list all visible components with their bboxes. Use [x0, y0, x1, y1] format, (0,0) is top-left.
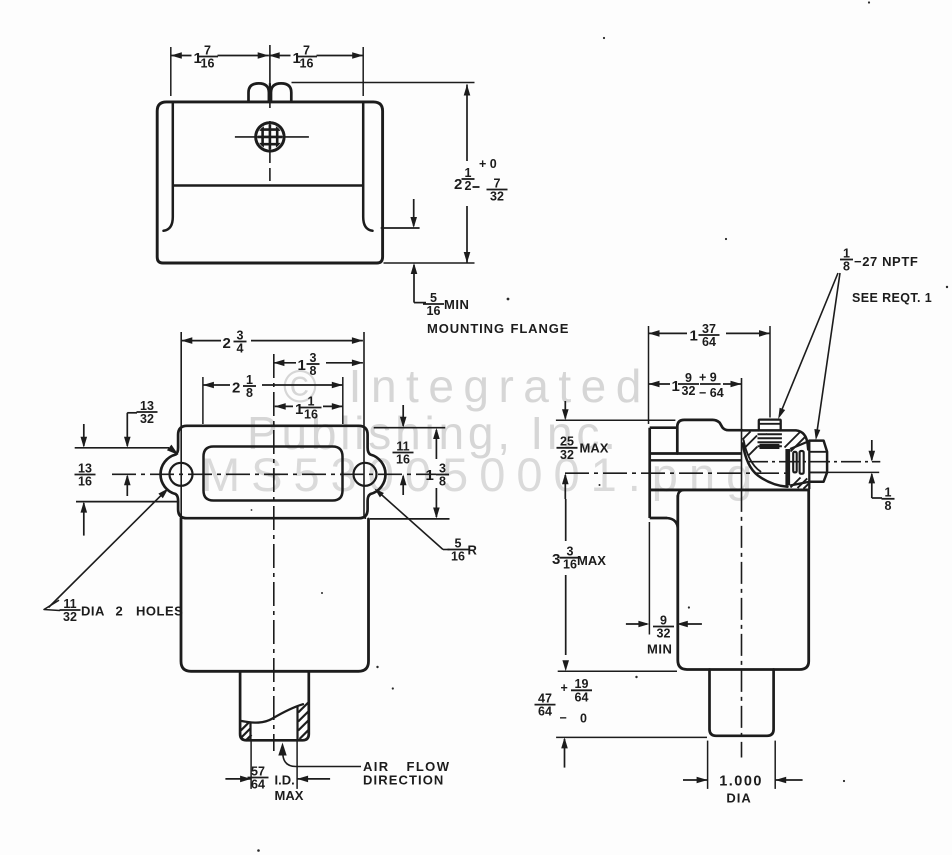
ext lines 57/64 [250, 741, 252, 789]
1/8 top arrow [871, 440, 873, 460]
svg-text:FLANGE: FLANGE [511, 321, 570, 336]
svg-text:2: 2 [232, 380, 240, 397]
hex flat slot 1 [793, 452, 797, 473]
side port outline [710, 670, 774, 736]
leader tail mark [44, 601, 60, 611]
11/16 bottom arrow [402, 476, 404, 495]
svg-text:16: 16 [201, 57, 215, 71]
svg-text:8: 8 [843, 260, 850, 274]
svg-text:2: 2 [465, 179, 472, 193]
svg-text:MIN: MIN [647, 642, 672, 657]
9/32 left arrow [626, 623, 647, 625]
svg-text:11: 11 [396, 439, 409, 453]
dimension line 1-7/16 pair [171, 55, 192, 57]
svg-text:DIA: DIA [81, 604, 105, 619]
svg-text:8: 8 [885, 499, 892, 513]
13/32 center arrow [126, 476, 128, 496]
dim 57/64 [225, 778, 251, 780]
leader 11/32 holes [49, 491, 167, 608]
arrow to flange edge [413, 199, 415, 226]
svg-text:3: 3 [552, 551, 560, 568]
ext lines 2 1/8 [202, 377, 204, 424]
svg-text:2: 2 [223, 335, 231, 352]
extension lines 1-7/16 [170, 47, 172, 96]
dim 2 3/4 [181, 340, 221, 342]
front view body [181, 519, 369, 672]
svg-text:+: + [561, 681, 568, 695]
lobe top arrowhead [167, 445, 179, 455]
svg-text:37: 37 [702, 322, 716, 336]
svg-text:13: 13 [140, 399, 154, 413]
NPTF thread stub [759, 420, 781, 431]
13/16 bottom arrow [83, 503, 85, 536]
thread lines [758, 433, 782, 435]
front view mounting flange outline [161, 426, 386, 518]
svg-text:+ 9: + 9 [699, 371, 717, 385]
svg-text:64: 64 [251, 778, 265, 792]
svg-text:−27 NPTF: −27 NPTF [854, 254, 918, 269]
svg-text:1.000: 1.000 [719, 774, 763, 790]
svg-text:5: 5 [430, 291, 437, 305]
svg-text:DIRECTION: DIRECTION [363, 772, 444, 787]
top view cover seam line [173, 184, 363, 187]
hex nut flats top edge [790, 441, 809, 449]
top view screw horizontal centerline [235, 136, 309, 138]
svg-text:1: 1 [426, 467, 434, 484]
hex flat slot 2 [800, 451, 804, 474]
dim 2 1/8 [203, 384, 230, 386]
extension line top (boss top) [292, 82, 475, 84]
svg-text:32: 32 [682, 384, 696, 398]
speckle dots [507, 298, 510, 301]
front view horizontal centerline [112, 473, 436, 475]
dim 1.000 [683, 779, 708, 781]
svg-text:1: 1 [246, 373, 253, 387]
svg-text:2: 2 [116, 604, 123, 619]
section hatching left [743, 432, 751, 440]
13/32 leader bracket [127, 412, 137, 414]
svg-text:16: 16 [427, 304, 441, 318]
svg-text:MAX: MAX [275, 788, 304, 803]
svg-text:2: 2 [454, 176, 462, 193]
cavity curve [743, 444, 788, 487]
NPTF leader to side port [816, 273, 840, 437]
25/32 top arrow [564, 401, 566, 419]
svg-text:5: 5 [455, 536, 462, 550]
svg-text:16: 16 [300, 57, 314, 71]
hex nut flats bottom edge [790, 482, 809, 486]
side body shelf line [651, 488, 809, 491]
svg-text:19: 19 [575, 677, 589, 691]
ext line port bottom left [556, 736, 707, 738]
side flange bottom edge [650, 517, 667, 520]
ext line body bottom left [558, 670, 677, 672]
svg-text:13: 13 [78, 461, 92, 475]
section block top edge [742, 430, 808, 449]
top view body outline [157, 102, 382, 263]
svg-text:7: 7 [303, 43, 310, 57]
47/64 bottom arrow [564, 739, 566, 768]
11/16 top arrow [402, 405, 404, 426]
svg-text:7: 7 [204, 43, 211, 57]
svg-text:I.D.: I.D. [275, 773, 295, 788]
svg-text:64: 64 [575, 690, 589, 704]
svg-text:11: 11 [63, 597, 76, 611]
svg-text:1: 1 [843, 246, 850, 260]
svg-text:1: 1 [308, 394, 315, 408]
section hatching right of stub [785, 432, 801, 448]
side view port centerline [741, 378, 743, 490]
ext line lobe bottom [76, 501, 179, 503]
top view screw boss [249, 83, 269, 101]
side flange ext line [648, 522, 650, 635]
svg-text:8: 8 [439, 475, 446, 489]
svg-text:16: 16 [451, 550, 465, 564]
svg-text:16: 16 [78, 475, 92, 489]
hex chamfer line top [809, 451, 827, 453]
port right wall inner edge [296, 706, 298, 740]
top view left flange fold line [164, 102, 173, 231]
svg-text:3: 3 [439, 461, 446, 475]
svg-text:HOLES: HOLES [136, 604, 183, 619]
port left wall inner edge [249, 722, 251, 740]
right mounting hole [354, 463, 377, 486]
svg-text:32: 32 [490, 190, 504, 204]
side body top edge [650, 452, 742, 455]
svg-text:+ 0: + 0 [479, 157, 497, 171]
svg-text:32: 32 [657, 627, 671, 641]
ext line flange top right [374, 427, 446, 429]
svg-text:1: 1 [672, 378, 680, 395]
svg-text:1: 1 [690, 328, 698, 345]
svg-text:47: 47 [538, 691, 552, 705]
ext line flange bottom right [370, 518, 450, 520]
leader 5/16 R [376, 490, 443, 550]
svg-text:64: 64 [538, 705, 552, 719]
hex chamfer line bottom [809, 471, 827, 473]
1/8 bottom arrow [871, 474, 873, 498]
side flange top edge [650, 426, 678, 429]
top view boss seam line [269, 83, 271, 101]
dim 1 37/64 [649, 332, 688, 334]
svg-text:32: 32 [560, 448, 574, 462]
svg-text:9: 9 [660, 613, 667, 627]
side flange to body fillet [667, 518, 678, 530]
hex nut face outline [809, 441, 827, 482]
top view right flange fold line [363, 102, 372, 231]
front view raised cover rect [204, 447, 343, 501]
svg-text:7: 7 [494, 176, 501, 190]
ext line side left [648, 326, 650, 424]
ext line boss top left [556, 419, 676, 421]
svg-text:MAX: MAX [577, 553, 606, 568]
svg-text:MOUNTING: MOUNTING [427, 321, 505, 336]
line hole center right ext [828, 471, 879, 473]
ext line lobe top [75, 447, 169, 449]
left hole vertical centerline [180, 516, 182, 519]
svg-text:− 64: − 64 [699, 386, 724, 400]
dim 1 9/32 [649, 383, 671, 385]
extension line bottom (case bottom) [384, 262, 475, 264]
hex nut face edge [808, 441, 810, 490]
side body outline [678, 490, 809, 670]
svg-text:1: 1 [885, 486, 892, 500]
dim 1 1/16 [275, 405, 293, 407]
top view vertical centerline [269, 45, 271, 108]
front view bottom port [240, 671, 309, 740]
flange edge line (top view) [381, 227, 420, 229]
center mark [268, 473, 280, 475]
svg-text:57: 57 [251, 764, 265, 778]
svg-text:SEE REQT. 1: SEE REQT. 1 [852, 291, 932, 305]
svg-text:16: 16 [396, 453, 410, 467]
NPTF leader to top port [780, 273, 839, 416]
side cover boss [677, 420, 742, 454]
svg-text:3: 3 [567, 545, 574, 559]
svg-text:25: 25 [560, 435, 574, 449]
svg-text:8: 8 [246, 386, 253, 400]
svg-text:16: 16 [304, 408, 318, 422]
side flange front face [648, 428, 651, 518]
port left wall hatching [241, 722, 249, 730]
svg-text:DIA: DIA [726, 791, 751, 806]
hex nut junction bar [785, 449, 790, 486]
air flow leader [283, 750, 361, 767]
svg-text:MAX: MAX [580, 441, 609, 456]
port section break line [242, 704, 304, 722]
section hatching bottom wedge [791, 478, 801, 488]
svg-text:3: 3 [237, 328, 244, 342]
side fitting centerline [748, 461, 880, 463]
left mounting hole [170, 463, 193, 486]
svg-text:1: 1 [465, 166, 472, 180]
svg-text:8: 8 [310, 364, 317, 378]
13/16 top arrow [83, 424, 85, 446]
side body shelf corner [678, 490, 684, 497]
port right wall hatching [298, 702, 309, 713]
svg-text:32: 32 [63, 610, 77, 624]
dim 1 3/8 top [273, 362, 296, 364]
side view horizontal centerline [565, 472, 789, 474]
svg-text:1: 1 [295, 401, 303, 418]
top view screw head circle [256, 123, 284, 151]
svg-text:4: 4 [237, 342, 244, 356]
ext lines 1.000 [707, 741, 709, 789]
svg-text:64: 64 [702, 335, 716, 349]
svg-text:9: 9 [685, 371, 692, 385]
svg-text:3: 3 [310, 351, 317, 365]
svg-text:32: 32 [140, 412, 154, 426]
dimension line 2-1/2 vertical [466, 85, 468, 162]
dim 3 3/16 line [565, 499, 567, 541]
thread bottom band [760, 444, 780, 449]
side body seam line [651, 459, 742, 461]
right hole vertical centerline [364, 516, 366, 519]
ext lines 2 3/4 [180, 332, 182, 518]
ext line stub [769, 326, 771, 418]
svg-text:MIN: MIN [444, 297, 469, 312]
25/32 bottom arrow [564, 475, 566, 499]
front view vertical centerline [273, 354, 275, 751]
svg-text:16: 16 [563, 558, 577, 572]
dim 1 3/8 right vertical [435, 430, 437, 459]
svg-text:R: R [468, 543, 478, 558]
arrow to case bottom [413, 265, 415, 303]
svg-text:−: − [560, 711, 567, 725]
svg-text:0: 0 [580, 712, 587, 726]
9/32 right arrow [680, 623, 702, 625]
svg-text:1: 1 [298, 357, 306, 374]
